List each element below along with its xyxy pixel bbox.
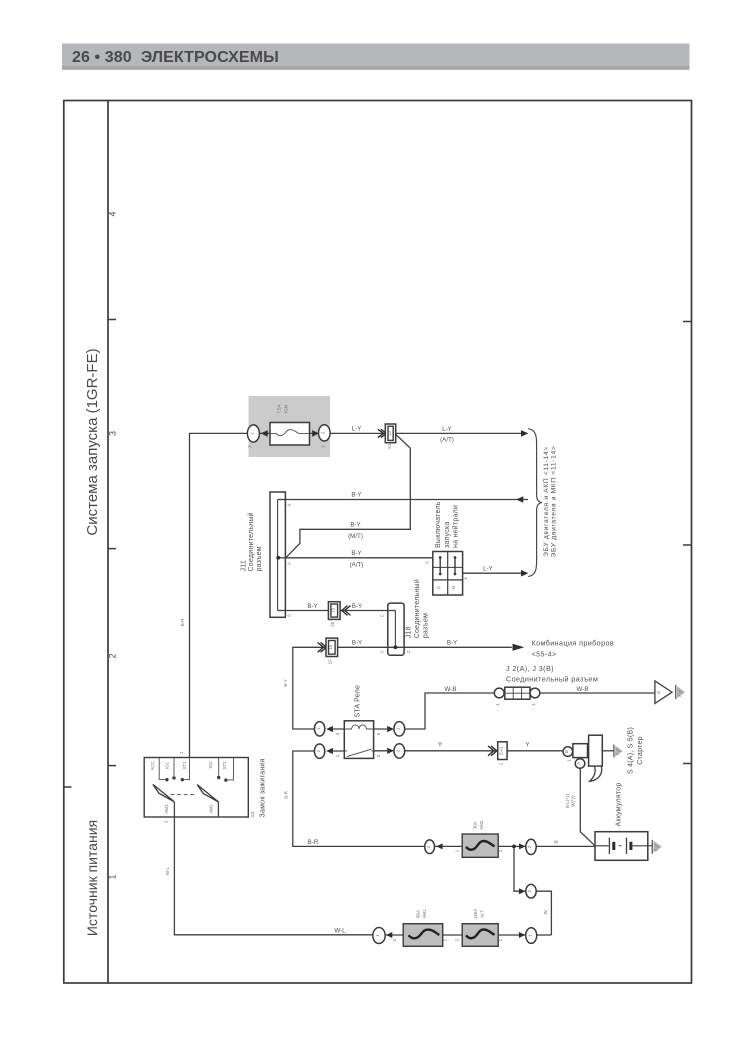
svg-text:(А/Т): (А/Т) xyxy=(440,436,454,443)
svg-text:L-Y: L-Y xyxy=(352,426,362,433)
svg-text:B-Y: B-Y xyxy=(447,640,457,647)
svg-text:А: А xyxy=(576,762,581,765)
svg-text:Источник питания: Источник питания xyxy=(84,820,100,936)
svg-text:W-L: W-L xyxy=(165,866,170,875)
svg-text:ЕА1: ЕА1 xyxy=(499,746,504,755)
svg-text:STA Реле: STA Реле xyxy=(355,685,362,718)
svg-text:B-L(*1): B-L(*1) xyxy=(565,794,570,808)
svg-text:АМ1: АМ1 xyxy=(422,909,427,919)
svg-text:L-Y: L-Y xyxy=(483,566,493,573)
svg-text:<55-4>: <55-4> xyxy=(532,650,557,659)
svg-text:разъем: разъем xyxy=(422,613,429,638)
svg-text:С: С xyxy=(379,614,384,617)
svg-text:на нейтрали: на нейтрали xyxy=(452,505,460,548)
svg-text:B-Y: B-Y xyxy=(352,603,362,610)
svg-text:В: В xyxy=(564,750,569,753)
svg-text:W-L: W-L xyxy=(334,928,346,935)
svg-text:J11: J11 xyxy=(241,560,248,572)
svg-text:S1: S1 xyxy=(387,443,392,449)
svg-text:J18: J18 xyxy=(406,626,413,638)
svg-text:140А: 140А xyxy=(473,909,478,919)
svg-text:1F: 1F xyxy=(328,659,333,664)
svg-text:B-Y: B-Y xyxy=(351,492,361,499)
svg-text:(А/Т): (А/Т) xyxy=(350,561,364,568)
svg-text:26 • 380 ЭЛЕКТРОСХЕМЫ: 26 • 380 ЭЛЕКТРОСХЕМЫ xyxy=(72,49,279,66)
svg-text:Комбинация приборов: Комбинация приборов xyxy=(532,639,615,648)
svg-text:B-R: B-R xyxy=(283,791,288,799)
svg-text:запуска: запуска xyxy=(444,521,451,548)
svg-text:(М/Т): (М/Т) xyxy=(348,533,363,540)
svg-text:ST2: ST2 xyxy=(222,761,227,770)
svg-text:А: А xyxy=(287,562,292,565)
svg-text:3: 3 xyxy=(108,431,118,436)
svg-text:АМ1: АМ1 xyxy=(164,804,169,814)
svg-text:АСС: АСС xyxy=(150,761,155,770)
svg-text:разъем: разъем xyxy=(256,546,263,571)
svg-text:IG1: IG1 xyxy=(165,761,170,769)
svg-text:1E: 1E xyxy=(330,622,335,627)
svg-text:B-Y: B-Y xyxy=(352,640,362,647)
svg-text:С: С xyxy=(379,650,384,653)
svg-text:1: 1 xyxy=(108,874,118,879)
svg-text:B-Y: B-Y xyxy=(307,603,317,610)
svg-text:W-B: W-B xyxy=(577,686,589,693)
svg-text:B-Y: B-Y xyxy=(351,550,361,557)
svg-text:Р: Р xyxy=(436,586,441,589)
svg-text:Y: Y xyxy=(525,741,529,748)
svg-text:ЭБУ двигателя и АКП <11-14>: ЭБУ двигателя и АКП <11-14> xyxy=(543,446,550,557)
svg-text:G: G xyxy=(656,690,661,694)
svg-text:B-R: B-R xyxy=(180,619,185,627)
svg-text:W-B: W-B xyxy=(445,686,457,693)
svg-text:J 2(А), J 3(В): J 2(А), J 3(В) xyxy=(506,664,554,673)
svg-text:B-Y: B-Y xyxy=(350,522,360,529)
svg-text:С: С xyxy=(406,650,411,653)
svg-text:Y: Y xyxy=(438,741,442,748)
svg-text:B-R: B-R xyxy=(308,839,319,846)
svg-text:ST1: ST1 xyxy=(182,761,187,770)
svg-text:Соединительный: Соединительный xyxy=(413,579,421,638)
svg-text:4: 4 xyxy=(108,211,118,216)
svg-text:АМ2: АМ2 xyxy=(209,804,214,814)
svg-text:IG2: IG2 xyxy=(208,761,213,769)
svg-text:L-Y: L-Y xyxy=(442,426,452,433)
svg-text:N: N xyxy=(451,586,456,589)
svg-text:Аккумулятор: Аккумулятор xyxy=(616,782,623,826)
svg-text:А: А xyxy=(287,614,292,617)
svg-text:Замок зажигания: Замок зажигания xyxy=(259,758,266,817)
svg-text:Стартер: Стартер xyxy=(637,736,644,764)
svg-text:2: 2 xyxy=(108,653,118,658)
svg-text:12: 12 xyxy=(387,430,392,435)
svg-text:Соединительный разъем: Соединительный разъем xyxy=(506,675,598,684)
svg-text:Соединительный: Соединительный xyxy=(247,512,255,571)
svg-text:15: 15 xyxy=(328,644,333,649)
svg-text:7.5A: 7.5A xyxy=(277,404,282,413)
svg-text:50А: 50А xyxy=(416,910,421,918)
svg-text:ЭБУ двигателя и МКП <11-14>: ЭБУ двигателя и МКП <11-14> xyxy=(550,446,557,558)
svg-text:S 4(А), S 5(В): S 4(А), S 5(В) xyxy=(627,727,634,774)
svg-text:АМ2: АМ2 xyxy=(479,820,484,830)
svg-text:ALT: ALT xyxy=(479,910,484,918)
svg-text:13: 13 xyxy=(330,608,335,613)
svg-text:Выключатель: Выключатель xyxy=(435,501,442,548)
svg-text:А: А xyxy=(287,503,292,506)
svg-text:B-Y: B-Y xyxy=(283,679,288,686)
svg-text:Система запуска (1GR-FE): Система запуска (1GR-FE) xyxy=(84,348,101,535)
svg-text:W(*2): W(*2) xyxy=(571,795,576,807)
svg-text:30А: 30А xyxy=(473,821,478,829)
svg-text:I14: I14 xyxy=(250,811,255,818)
svg-text:IGN: IGN xyxy=(284,405,289,413)
